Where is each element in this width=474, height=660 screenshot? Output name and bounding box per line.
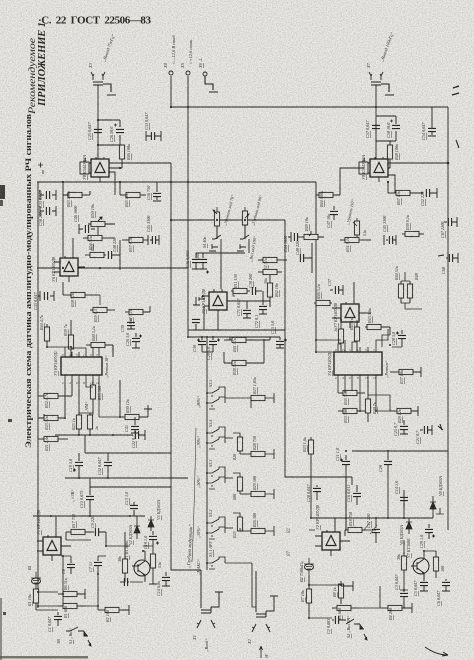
junction dots bottom-left bbox=[37, 515, 144, 607]
diode V3 bbox=[148, 516, 154, 531]
resistor R47 bbox=[125, 306, 150, 315]
wire: bus y435 bbox=[55, 434, 133, 436]
resistor R21L bbox=[38, 436, 68, 441]
op-amp U5 bbox=[199, 253, 270, 330]
capacitor C17r bbox=[372, 524, 380, 543]
capacitor C39 bbox=[127, 318, 135, 329]
wire: mid bus y220 bbox=[171, 219, 285, 221]
wire: bus y518 right bbox=[311, 514, 433, 518]
capacitor C32 bbox=[104, 453, 112, 478]
ground near U5 bbox=[193, 297, 202, 305]
capacitor C29r electrolytic bbox=[425, 524, 435, 539]
capacitor C15b bbox=[86, 478, 94, 516]
resistor R28sw bbox=[240, 449, 274, 459]
mark: right margin tick 3 bbox=[438, 255, 444, 256]
resistor R44R bbox=[316, 168, 364, 199]
mark: bottom-right arrow bbox=[425, 647, 448, 656]
wire: bus y451 right bbox=[352, 450, 448, 452]
wire: right drop x316 bbox=[315, 182, 317, 352]
leader line for glubina bbox=[192, 428, 196, 562]
junction dots U4 area bbox=[315, 181, 423, 412]
capacitor C8b bbox=[67, 561, 75, 574]
wire: U4 block wiring bbox=[316, 272, 422, 411]
wire: X5 supply drop x188 bbox=[187, 76, 189, 337]
wire: U3 bottom network bbox=[38, 380, 120, 439]
capacitor C5r bbox=[420, 579, 428, 591]
resistor R30L bbox=[120, 380, 148, 420]
wire: right frame vertical x448 bbox=[447, 107, 449, 530]
resistor R23v vertical bbox=[308, 437, 313, 464]
IC U3 bbox=[61, 352, 102, 380]
capacitor C15sw electrolytic bbox=[276, 337, 287, 348]
capacitor C47R bbox=[330, 206, 338, 220]
resistor R1b bbox=[58, 603, 86, 608]
resistor R4r bbox=[380, 603, 412, 613]
capacitor C12b bbox=[120, 578, 129, 586]
resistor R66v vertical bbox=[233, 513, 243, 531]
resistor R29sw bbox=[240, 489, 274, 499]
wire: bottom-left wiring bbox=[36, 516, 153, 610]
resistor R43R bbox=[365, 324, 390, 335]
mark: right margin dash 1 bbox=[452, 86, 459, 95]
op-amp U9 bbox=[359, 157, 395, 193]
capacitor C16r bbox=[353, 485, 361, 505]
resistor R57 bbox=[122, 237, 148, 242]
wire: left frame vertical x38 bbox=[37, 182, 39, 608]
resistor R51R bbox=[340, 237, 371, 242]
wire: U9 output to frame y163 bbox=[388, 162, 448, 164]
switch S4 bbox=[209, 235, 221, 251]
junction dots bottom-right bbox=[308, 450, 425, 619]
resistor R1v vertical bbox=[33, 589, 38, 610]
capacitor C48 bbox=[108, 240, 120, 270]
capacitor C14r bbox=[400, 490, 408, 508]
op-amp U7 bbox=[332, 282, 371, 328]
wire: X3 signal drop x98 bbox=[97, 86, 99, 159]
terminal X5 bbox=[186, 71, 190, 75]
wire: top frame bus y107 bbox=[171, 106, 448, 108]
resistor R44L vertical bbox=[44, 324, 49, 347]
capacitor C14b bbox=[162, 572, 170, 586]
resistor R50 trimmer bbox=[88, 217, 115, 238]
connector X2 bbox=[252, 571, 278, 658]
capacitor C19 electrolytic bbox=[73, 453, 83, 478]
switch S2 bbox=[342, 619, 367, 640]
resistor R35R bbox=[338, 380, 365, 396]
capacitor C35 bbox=[38, 291, 54, 301]
resistor R59 bbox=[90, 295, 115, 313]
resistor R16v vertical bbox=[150, 546, 155, 578]
wire: center vertical x171 bbox=[170, 163, 172, 563]
junction dots top bbox=[62, 106, 449, 269]
wire: bus y487 short bbox=[90, 486, 171, 488]
capacitor C21R bbox=[420, 425, 432, 435]
junction dots switch bus bbox=[187, 336, 265, 564]
wire: box around modulator bbox=[79, 435, 171, 453]
wire: U3 pin wires bbox=[47, 345, 113, 357]
capacitor C76 bbox=[192, 253, 200, 269]
wire: S3.1 to X2 bbox=[252, 571, 256, 607]
mark: bottom-left speck bbox=[0, 598, 88, 660]
capacitor C28R electrolytic bbox=[396, 330, 406, 347]
ground right of V1 bbox=[149, 578, 157, 584]
resistor R41sw bbox=[224, 337, 270, 343]
connector X3 bbox=[91, 72, 116, 95]
capacitor C74 bottom left of U5 bbox=[192, 319, 200, 330]
wire: bus y478 bbox=[65, 477, 188, 479]
resistor R7v vertical bbox=[306, 575, 311, 618]
mark: right margin tick 2 bbox=[456, 140, 459, 148]
capacitor C45 bbox=[148, 235, 159, 245]
IC U4 bbox=[334, 347, 382, 380]
resistor R58 bbox=[63, 282, 100, 298]
capacitor C7b bbox=[94, 556, 102, 574]
transistor V1 bbox=[132, 551, 150, 582]
terminal X6 with ground bbox=[203, 72, 218, 92]
wire: X4 drop to frame bbox=[170, 76, 172, 107]
capacitor C41 under R30L bbox=[131, 417, 139, 433]
transistor V7 bbox=[411, 551, 429, 579]
wire: X7 signal drop x376 bbox=[375, 86, 377, 159]
wire: U8 output bus y163 bbox=[109, 162, 171, 164]
wire: switch bank bus x207 bbox=[206, 337, 208, 570]
capacitor C13b bbox=[130, 502, 138, 516]
capacitor C1b bbox=[54, 612, 62, 626]
connector X1 bbox=[197, 570, 223, 628]
wire: U5 block bottom bus bbox=[188, 269, 285, 330]
capacitor C3r bbox=[400, 590, 408, 608]
switch S5 bbox=[237, 235, 249, 251]
capacitor C57 bbox=[372, 116, 396, 141]
wire: right block box bbox=[285, 330, 352, 530]
resistor R18r bbox=[345, 527, 367, 536]
resistor R3r bbox=[332, 605, 359, 610]
resistor R25L vertical bbox=[76, 380, 81, 435]
resistor R33L vertical bbox=[90, 380, 95, 413]
capacitor C45R bbox=[384, 235, 396, 245]
capacitor C10b electrolytic bbox=[149, 531, 159, 546]
switch S3.4 bbox=[207, 427, 233, 449]
diode V8 bbox=[430, 496, 444, 514]
capacitor C44R bbox=[288, 232, 304, 242]
resistor R67 bbox=[388, 182, 422, 196]
capacitor C53 bbox=[146, 131, 161, 141]
mark: small left dot bbox=[8, 419, 12, 422]
capacitor C25 bbox=[94, 120, 120, 145]
wire: x285 drop bbox=[284, 220, 286, 330]
crystal B2 bbox=[304, 558, 314, 575]
resistor R65v vertical bbox=[233, 473, 243, 494]
resistor R62 bbox=[267, 275, 272, 307]
wire: bottom-right wiring bbox=[309, 464, 448, 618]
switch S3.2 bbox=[207, 517, 233, 539]
resistor R52R bbox=[258, 257, 287, 262]
resistor R20v vertical bbox=[401, 552, 406, 578]
resistor R23L bbox=[38, 380, 65, 421]
capacitor C20r on x388 bbox=[384, 451, 392, 475]
wire: main horizontal bus y182 bbox=[37, 181, 316, 183]
pin numbers U4 top bbox=[335, 348, 376, 380]
resistor R39L vertical bbox=[68, 320, 73, 357]
resistor R11 bbox=[231, 288, 250, 296]
capacitor C30c bbox=[252, 287, 262, 295]
resistor R37R bbox=[390, 367, 421, 377]
resistor R26L vertical bbox=[87, 413, 92, 435]
crystal B1 bbox=[31, 572, 41, 589]
resistor R6b bbox=[58, 589, 85, 599]
resistor R2b bbox=[98, 605, 129, 615]
resistor R17b bbox=[66, 529, 91, 540]
resistor R32 bbox=[38, 380, 72, 399]
wire: center vertical to X1 bbox=[171, 563, 201, 570]
switch S3.1 bbox=[207, 557, 252, 571]
switch S3.3 bbox=[207, 467, 233, 489]
op-amp U1 bbox=[37, 516, 71, 561]
trimmer R61 bbox=[242, 207, 249, 239]
capacitor C52R bbox=[426, 188, 437, 198]
capacitor C72 bbox=[259, 291, 267, 314]
capacitor C68 bbox=[446, 253, 458, 263]
capacitor C9b bbox=[91, 528, 106, 546]
capacitor C22 on bus bbox=[135, 430, 145, 440]
wire: bus y516 bbox=[33, 515, 145, 517]
resistor R52 bbox=[85, 252, 106, 257]
diode V2 bbox=[134, 516, 140, 539]
capacitor C58 electrolytic bbox=[390, 120, 400, 129]
capacitor C25R bbox=[400, 420, 408, 434]
mark: left edge blob bbox=[0, 185, 5, 206]
capacitor C26 electrolytic bbox=[114, 124, 124, 133]
resistor R56 bbox=[83, 235, 115, 240]
trimmer R60 bbox=[213, 207, 220, 239]
resistor R64v vertical bbox=[233, 433, 243, 454]
resistor R40L bbox=[86, 342, 113, 357]
resistor R45R bbox=[314, 300, 332, 305]
capacitor C6r bbox=[442, 579, 450, 591]
resistor R43 bbox=[63, 182, 90, 198]
resistor R45v vertical bbox=[354, 322, 359, 352]
wire: left mid bus y268 bbox=[37, 267, 188, 269]
wire: x63 drop to U6 bbox=[62, 195, 64, 257]
resistor R39R bbox=[402, 231, 424, 236]
capacitor C29sw electrolytic bbox=[202, 337, 220, 352]
connector X7 bbox=[369, 72, 394, 95]
diode V6 bbox=[406, 518, 412, 534]
capacitor C50 bbox=[40, 206, 56, 216]
mark: right margin tick 4 bbox=[438, 424, 443, 430]
switch S1 bbox=[66, 627, 91, 646]
resistor R15v vertical bbox=[122, 532, 127, 582]
resistor R29R bbox=[390, 406, 418, 416]
resistor R21v vertical bbox=[433, 551, 438, 578]
resistor R33R bbox=[338, 408, 365, 413]
resistor R8v vertical bbox=[338, 581, 353, 604]
capacitor C56 below bus bbox=[153, 182, 161, 201]
mark: pencil dashes bbox=[364, 522, 377, 534]
capacitor C30sw electrolytic bbox=[197, 337, 206, 352]
resistor R27sw bbox=[251, 393, 274, 408]
capacitor C37R bbox=[330, 285, 343, 295]
capacitor C48R bbox=[300, 243, 312, 273]
resistor R53R bbox=[258, 269, 282, 274]
op-amp U6 bbox=[54, 238, 85, 282]
resistor R45 bbox=[120, 182, 146, 198]
switch S3.5 bbox=[207, 387, 251, 409]
resistor R38sw bbox=[224, 340, 264, 366]
op-amp U8 bbox=[80, 157, 115, 195]
resistor R30R vertical bbox=[365, 380, 370, 422]
ground right of R30L bbox=[144, 405, 152, 409]
wire: top feed bbox=[188, 337, 280, 340]
resistor R46 bbox=[109, 145, 125, 168]
resistor R48R2 bbox=[407, 281, 412, 303]
resistor R26sw bbox=[240, 526, 274, 536]
junction dots U3 area bbox=[46, 346, 121, 479]
pin numbers U3 top bbox=[62, 353, 99, 385]
capacitor C77 electrolytic bbox=[199, 253, 209, 274]
capacitor C28b bbox=[313, 485, 321, 500]
op-amp U2 bbox=[315, 518, 350, 556]
capacitor C71 bbox=[243, 301, 251, 318]
resistor R48 bbox=[387, 141, 393, 168]
capacitor C26b electrolytic bbox=[132, 333, 142, 348]
capacitor C11r electrolytic bbox=[340, 455, 350, 473]
resistor R51v trimmer bbox=[353, 218, 360, 243]
terminal X4 bbox=[169, 71, 173, 75]
capacitor C33 pair bbox=[40, 190, 56, 200]
resistor R44R2 bbox=[398, 281, 403, 303]
resistor R50R bbox=[304, 231, 324, 240]
wire: S4/S5 row bbox=[196, 225, 249, 253]
capacitor C54 bbox=[428, 107, 436, 136]
capacitor C2r bbox=[332, 616, 342, 624]
resistor R46v vertical bbox=[338, 328, 343, 352]
capacitor C46 bbox=[79, 224, 95, 234]
mark: plus tick near left frame bbox=[38, 163, 43, 175]
capacitor C67 bbox=[444, 217, 457, 227]
